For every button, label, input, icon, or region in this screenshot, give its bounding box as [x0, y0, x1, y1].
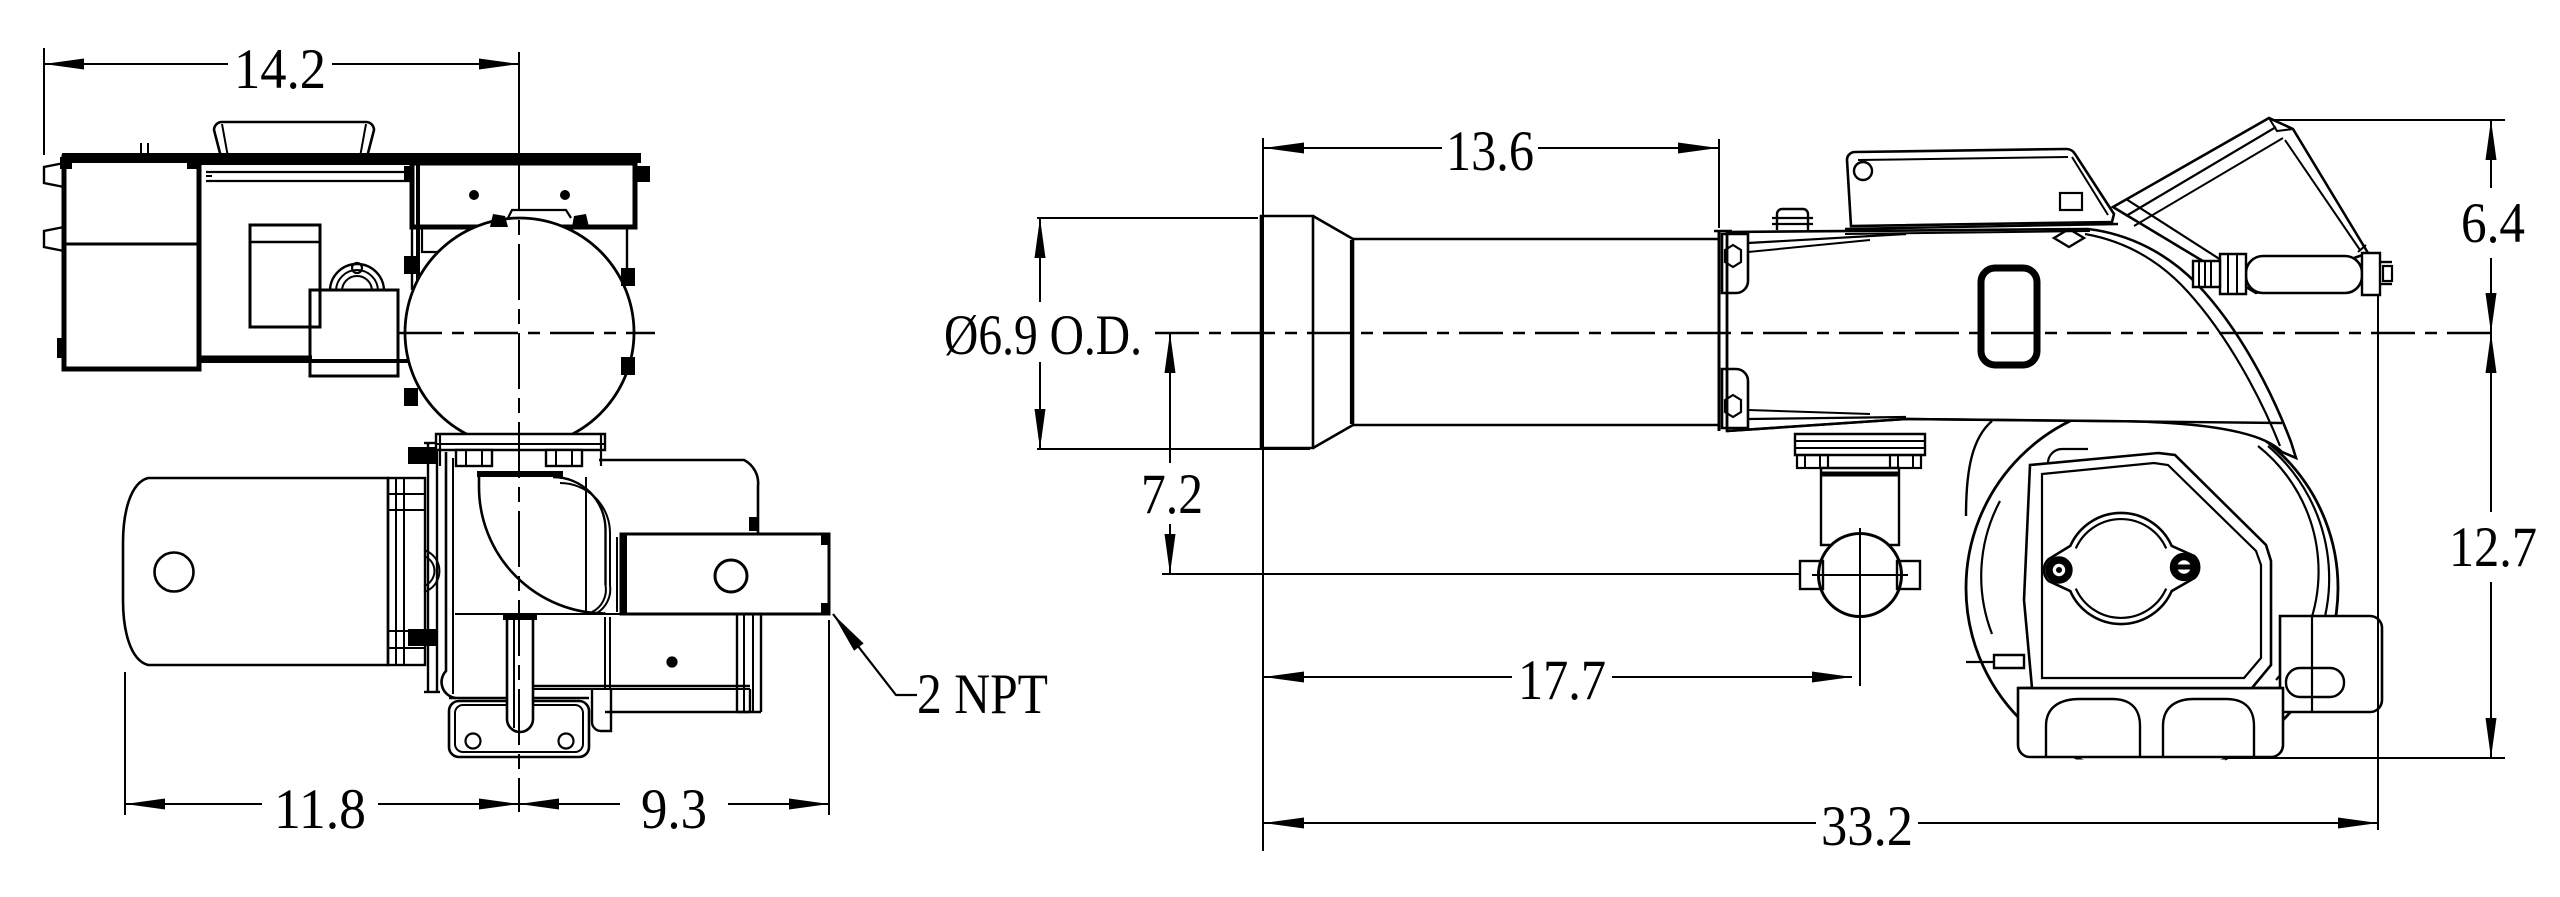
- outlet box right of scroll: [2280, 616, 2382, 712]
- igniter box inner lines: [2126, 127, 2276, 216]
- duct bottom rails: [532, 685, 750, 687]
- motor conduit hole: [155, 553, 194, 592]
- dim 9.3 line: [519, 803, 620, 805]
- panel left tab: [1994, 655, 2024, 668]
- blast tube cylinder: [1353, 238, 1719, 241]
- capsule hex nut: [2220, 254, 2246, 294]
- top-right box: [412, 163, 635, 227]
- flange bolt top (black): [408, 447, 438, 464]
- bracket black marks: [749, 517, 759, 531]
- housing bottom line: [1727, 419, 1906, 431]
- flange to scroll sides: [439, 434, 441, 466]
- right view: horizontal centerline: [1155, 332, 2500, 334]
- cam pin circle: [352, 263, 362, 273]
- cover hinge hole: [1854, 162, 1872, 180]
- middle box top double lines: [206, 171, 412, 173]
- valve crosshair: [1859, 528, 1861, 622]
- svg-text:9.3: 9.3: [641, 778, 707, 841]
- dim 12.7 vertical line: [2490, 333, 2492, 512]
- foot top line: [2018, 687, 2283, 689]
- scroll mid arc right: [2268, 446, 2329, 692]
- inlet circle top tabs (black): [490, 214, 508, 227]
- rail top hinge ticks: [140, 143, 142, 157]
- gas valve circle: [1819, 534, 1902, 617]
- dim 6.9 vertical line: [1039, 218, 1041, 302]
- scroll inlet thick line: [477, 471, 563, 477]
- left box tab upper: [44, 163, 64, 187]
- flange bell arcs: [424, 550, 439, 592]
- inlet top small trapezoid: [508, 210, 571, 218]
- svg-text:17.7: 17.7: [1518, 649, 1606, 712]
- svg-text:2 NPT: 2 NPT: [917, 663, 1048, 726]
- union bolts right: [1890, 455, 1921, 468]
- svg-text:33.2: 33.2: [1821, 795, 1913, 858]
- motor face plate with fins: [388, 478, 425, 665]
- lower bracket bolt: [1725, 395, 1741, 417]
- right hanger bracket: [736, 614, 738, 712]
- damper slot: [507, 617, 533, 732]
- svg-text:14.2: 14.2: [234, 38, 326, 101]
- scroll inner arc right: [2258, 446, 2319, 680]
- cover plate on housing: [1847, 149, 2114, 226]
- flange bolt bottom (black): [408, 629, 438, 646]
- small dot on duct: [668, 658, 677, 667]
- dim 11.8 extension line left: [124, 672, 126, 815]
- dim 9.3 extension line right: [828, 620, 830, 815]
- blower mounting flange plate: [427, 443, 429, 692]
- left control box divider: [64, 243, 199, 246]
- duct inner wall verticals: [604, 617, 606, 688]
- cover latch: [2060, 193, 2082, 210]
- dim 14.2 line: [44, 63, 228, 65]
- valve right tab: [1897, 561, 1920, 589]
- housing right inner curve: [2085, 234, 2280, 446]
- top thick rail line: [62, 153, 641, 163]
- svg-text:12.7: 12.7: [2449, 516, 2537, 579]
- dim 6.4 extension top: [2272, 119, 2505, 121]
- valve left tab: [1800, 561, 1823, 589]
- elbow linkage rod vertical: [585, 477, 587, 613]
- upper mounting bracket: [1722, 234, 1748, 293]
- upper bracket bolt: [1725, 245, 1741, 267]
- pump cover screw left: [2047, 558, 2072, 583]
- capsule threaded stub: [2193, 261, 2220, 287]
- side plate verticals: [411, 227, 413, 290]
- svg-text:13.6: 13.6: [1446, 120, 1534, 183]
- housing body: [1727, 229, 2296, 458]
- scroll outer circle: [1966, 402, 2338, 774]
- svg-text:6.4: 6.4: [2461, 192, 2525, 255]
- slot top thick mark: [503, 613, 537, 620]
- dim 33.2 extension right: [2377, 296, 2379, 830]
- dim 13.6 line: [1264, 147, 1442, 149]
- step piece right of foot: [592, 689, 611, 731]
- scroll inlet duct line: [455, 613, 621, 615]
- scroll inner arc left: [1981, 501, 2000, 634]
- leader 2 NPT arrow: [833, 614, 864, 651]
- outlet pipe joint thick line: [621, 534, 627, 614]
- outlet pipe hole: [715, 560, 747, 592]
- left box corner marks: [60, 157, 72, 169]
- blast tube cone base line: [1350, 240, 1352, 424]
- dim 6.4 vertical line: [2490, 120, 2492, 188]
- top cover bump: [214, 122, 374, 157]
- sight glass rounded rect: [1981, 268, 2037, 365]
- svg-text:11.8: 11.8: [274, 778, 366, 841]
- svg-text:7.2: 7.2: [1141, 463, 1203, 526]
- hex bolt on housing top: [1777, 209, 1808, 230]
- middle box: [199, 163, 418, 361]
- flange bolts: [456, 450, 492, 466]
- dim 13.6 extension right: [1718, 139, 1720, 228]
- vertical gas pipe: [1821, 468, 1899, 545]
- outlet pipe: [621, 534, 829, 614]
- middle box thick bottom: [199, 356, 312, 363]
- hide scroll circle below foot: [2077, 760, 2225, 778]
- dim 33.2 line: [1264, 822, 1816, 824]
- panel inner offset: [2042, 463, 2261, 678]
- pump cover screw right: [2171, 554, 2197, 580]
- capsule right bracket: [2362, 253, 2380, 295]
- top-right box bolt dots: [470, 191, 478, 199]
- svg-text:Ø6.9 O.D.: Ø6.9 O.D.: [944, 304, 1142, 367]
- foot pad under scroll: [449, 697, 589, 699]
- scroll housing top right: [599, 460, 758, 534]
- pipe collar thick line: [1821, 472, 1899, 477]
- left view: vertical centerline: [518, 52, 520, 155]
- capsule right screws: [2380, 261, 2392, 263]
- pipe end black corner marks: [821, 534, 830, 545]
- igniter box angled: [2113, 118, 2368, 293]
- foot arches: [2046, 699, 2140, 757]
- pump cover peanut inner: [2076, 519, 2166, 548]
- blast tube muzzle band: [1261, 216, 1313, 448]
- foot bolt holes: [466, 734, 481, 749]
- lower bracket brace lines: [1748, 417, 1906, 419]
- elbow inner wall fillets: [592, 585, 606, 612]
- dim 14.2 extension line left: [43, 48, 45, 155]
- blower inlet circle: [405, 218, 634, 447]
- top-right box side tabs (black): [634, 166, 650, 182]
- blast tube cone: [1313, 216, 1353, 448]
- upper bracket brace lines: [1748, 234, 1906, 243]
- cover inner edge: [1858, 157, 2068, 160]
- foot of scroll: [2018, 688, 2283, 757]
- pump mount panel octagon: [2024, 453, 2271, 688]
- flange at tube end: [1718, 231, 1721, 431]
- flange under inlet circle: [436, 434, 605, 450]
- motor body: [123, 478, 388, 665]
- outlet box stadium slot: [2286, 668, 2344, 697]
- dim 17.7 line: [1264, 676, 1512, 678]
- dim 13.6 extension left (long): [1262, 138, 1264, 851]
- lower mounting bracket: [1722, 369, 1748, 428]
- dim 7.2 extension line bottom: [1162, 573, 1800, 575]
- dim 7.2 vertical line: [1169, 333, 1171, 463]
- dim 6.9 extension top: [1037, 217, 1258, 219]
- cover base line: [1845, 224, 2118, 229]
- elbow outer arc: [479, 477, 606, 614]
- pump cover peanut outer: [2044, 513, 2199, 624]
- side plate marks behind circle (black): [404, 256, 418, 274]
- scroll housing body left edge: [442, 452, 456, 698]
- middle box inner rect: [250, 225, 320, 327]
- left box tab lower: [44, 227, 64, 251]
- cam arcs on gearbox: [330, 264, 384, 291]
- scroll inlet transition: [1966, 421, 1992, 516]
- gearbox small box: [310, 290, 398, 376]
- ignition transformer capsule: [2246, 256, 2362, 293]
- union bolts left: [1797, 455, 1828, 468]
- left control box: [64, 157, 199, 369]
- dim 11.8 line: [125, 803, 262, 805]
- dim 12.7 extension bottom: [2225, 757, 2505, 759]
- elbow inner wall arcs: [553, 477, 606, 585]
- dim 6.9 extension bottom: [1037, 448, 1310, 450]
- left view: horizontal centerline through blower inlet: [398, 332, 655, 334]
- gas union flange stack: [1795, 434, 1925, 455]
- steps under top-right box left corner: [422, 227, 461, 252]
- valve center vertical to dim: [1859, 609, 1861, 686]
- port diamond on housing top: [2054, 229, 2084, 247]
